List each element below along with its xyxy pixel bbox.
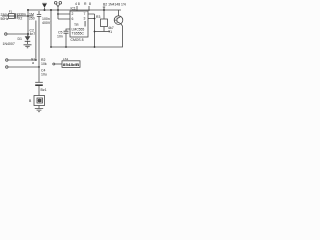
wire: vertical x39	[38, 11, 40, 67]
node 39,67	[38, 66, 40, 68]
svg-text:TS555C: TS555C	[72, 32, 85, 36]
wire y31.5	[95, 31, 111, 33]
svg-text:CMOS 8: CMOS 8	[71, 38, 84, 42]
wire: left vertical drop x28	[27, 10, 29, 37]
svg-text:6: 6	[72, 17, 74, 21]
svg-text:8548dB: 8548dB	[63, 63, 80, 67]
svg-text:10u: 10u	[41, 73, 47, 77]
node x94 pin	[94, 18, 96, 20]
wire y34	[7, 33, 28, 35]
ground left	[24, 45, 32, 48]
capacitor C1 plates	[16, 13, 18, 19]
wire row to node	[17, 15, 33, 17]
svg-text:X2: X2	[18, 17, 22, 21]
svg-text:400V: 400V	[42, 21, 51, 25]
node A: rail junction x28	[27, 9, 29, 11]
wire y67	[8, 66, 39, 68]
svg-text:10k: 10k	[41, 62, 47, 66]
wire to IC pins	[58, 14, 70, 19]
node C: rail junction x51	[50, 9, 52, 11]
svg-text:2: 2	[72, 12, 74, 16]
buzzer Bz1	[34, 96, 45, 106]
wire y60	[8, 59, 36, 61]
node: row junction	[27, 15, 29, 17]
transistor T1	[114, 16, 123, 25]
svg-text:Bz1: Bz1	[41, 88, 47, 92]
pin stubs above IC	[77, 6, 89, 11]
svg-text:7: 7	[84, 12, 86, 16]
svg-text:50Hz: 50Hz	[1, 17, 9, 21]
svg-text:IC1: IC1	[71, 7, 76, 11]
svg-text:D1: D1	[18, 37, 23, 41]
node 36,60	[35, 59, 37, 61]
wire: vertical x39 lower	[38, 67, 40, 82]
terminal: neutral	[5, 33, 7, 35]
svg-text:8: 8	[89, 2, 91, 6]
diode D1	[25, 36, 31, 41]
node x94 y31	[94, 31, 96, 33]
wire: vertical x36	[35, 21, 37, 61]
svg-text:B2 1N4148 1%: B2 1N4148 1%	[103, 3, 126, 7]
wire: vertical x94	[94, 14, 96, 47]
node: plug pin1 branch	[57, 13, 59, 15]
svg-text:4 8: 4 8	[75, 2, 80, 6]
IC right pin wires	[88, 14, 95, 19]
svg-text:250: 250	[29, 16, 35, 20]
IC1 box	[70, 11, 88, 37]
svg-text:4n7: 4n7	[30, 32, 36, 36]
svg-text:a: a	[32, 61, 34, 65]
svg-text:F1: F1	[9, 10, 13, 14]
capacitor C4 polarized	[35, 81, 43, 83]
node C5 gnd	[65, 46, 67, 48]
capacitor C5 at IC pin5	[64, 29, 71, 47]
node rail corner	[50, 46, 52, 48]
svg-text:LS1: LS1	[63, 57, 69, 61]
node B: rail junction x44	[44, 9, 46, 11]
mains earth symbol	[42, 2, 47, 4]
node D: rail junction x58	[57, 9, 59, 11]
svg-text:TR: TR	[74, 23, 79, 27]
svg-text:1N4007: 1N4007	[3, 42, 15, 46]
terminal K2	[53, 63, 55, 65]
terminal S1 a	[6, 59, 8, 61]
node x94 gnd rail	[94, 46, 96, 48]
capacitor C3 plates on x39	[37, 14, 41, 16]
svg-text:T1: T1	[108, 30, 112, 34]
node E: rail junction x104	[103, 9, 105, 11]
wire: top supply rail	[28, 9, 121, 11]
terminal S1 b	[6, 66, 8, 68]
mains plug symbol	[54, 2, 57, 5]
ground bottom	[35, 109, 43, 112]
node at 28,34	[27, 33, 29, 35]
stub above rail x104	[103, 7, 105, 10]
svg-text:R3: R3	[96, 15, 100, 19]
svg-text:3: 3	[84, 17, 86, 21]
resistor R3	[103, 10, 105, 19]
wire to module	[55, 63, 62, 65]
module box LS1	[62, 61, 80, 68]
svg-text:10n: 10n	[57, 35, 63, 39]
wire: mid return rail	[51, 10, 123, 47]
